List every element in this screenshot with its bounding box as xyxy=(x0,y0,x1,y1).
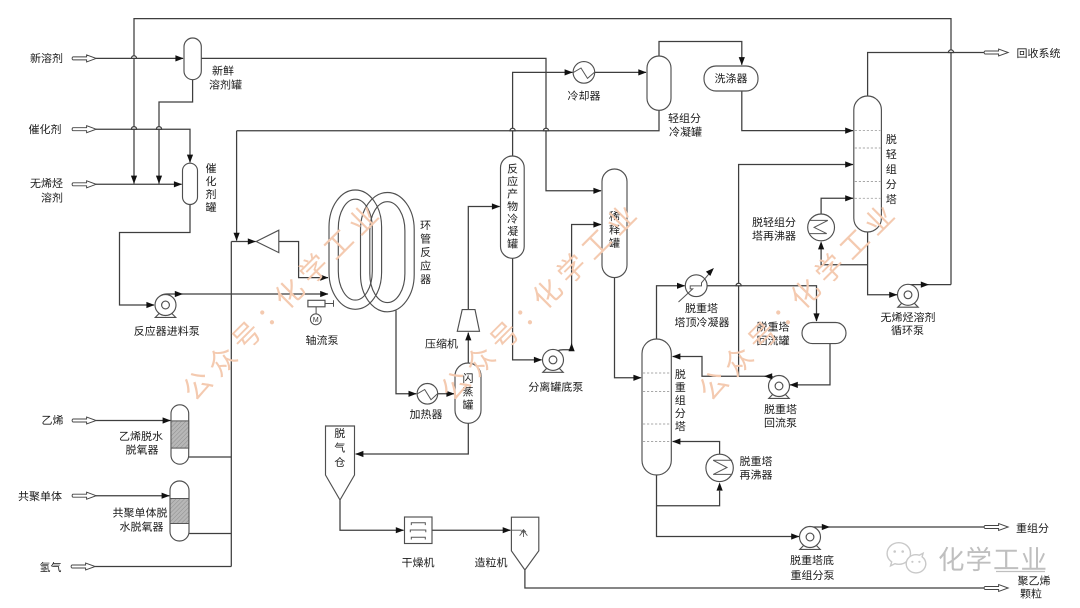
label 塔顶冷凝器 xyxy=(675,317,729,327)
label 乙烯 xyxy=(42,415,63,425)
logo text 化学工业 xyxy=(939,547,1045,572)
label 闪蒸罐 xyxy=(463,373,473,410)
wire cooler to light condensate tank xyxy=(595,71,646,73)
label 颗粒 xyxy=(1020,588,1041,598)
arrow onto valve line xyxy=(234,233,240,241)
vessel dilution tank 稀释罐 xyxy=(602,169,627,278)
wire reflux drum to reflux pump xyxy=(790,344,830,385)
vessel reflux drum 脱重塔回流罐 xyxy=(802,323,846,344)
open arrow pellets outlet xyxy=(984,585,1008,592)
wire catalyst tank outlet to feed pump xyxy=(120,205,191,306)
arrow reflux pump outlet xyxy=(764,373,772,379)
arrow into fresh solvent tank xyxy=(175,55,183,61)
wire dryer to pelletizer xyxy=(432,529,511,531)
label 共聚单体 xyxy=(19,491,62,501)
arrow into reflux pump xyxy=(790,382,798,388)
label 洗涤器 xyxy=(715,73,747,83)
open arrow solvent inlet xyxy=(72,181,96,188)
arrow into reboiler A bottom xyxy=(717,482,723,490)
arrow into light condensate tank xyxy=(638,69,646,75)
open arrow heavies outlet xyxy=(984,524,1008,531)
vessel ethylene deoxygenator 乙烯脱水脱氧器 xyxy=(171,405,189,464)
label 乙烯脱水 xyxy=(120,431,163,441)
axial pump stub xyxy=(316,300,333,314)
hop crossing xyxy=(131,127,136,130)
reactor loop 2 inner xyxy=(370,202,405,303)
label 脱重塔 xyxy=(757,321,789,331)
open arrow catalyst inlet xyxy=(72,126,96,133)
arrow into ethylene deoxygenator xyxy=(163,417,171,423)
label 脱重塔 xyxy=(740,456,772,466)
watermark 公众号：化学工业 xyxy=(695,201,897,403)
machine pelletizer 造粒机 xyxy=(511,517,538,570)
wire ethylene feed xyxy=(96,420,170,422)
svg-text:M: M xyxy=(313,317,319,324)
label 循环泵 xyxy=(891,325,923,335)
label 重组分 xyxy=(1017,523,1049,533)
label 无烯烃溶剂 xyxy=(881,312,935,322)
arrow into reboiler B bottom xyxy=(818,241,824,249)
arrow into tower light feed xyxy=(845,128,853,134)
open arrow hydrogen inlet xyxy=(71,563,95,570)
wire solvent tank outlet xyxy=(159,80,193,184)
open arrow recovery outlet xyxy=(984,49,1008,56)
label 重组分泵 xyxy=(791,570,834,580)
arrow into catalyst tank side xyxy=(174,181,182,187)
watermark 公众号：化学工业 xyxy=(437,201,639,403)
wire valve to reactor xyxy=(279,242,328,278)
arrow reboiler A return into tower xyxy=(672,438,680,444)
hop crossing xyxy=(543,128,548,131)
arrow separator pump riser xyxy=(569,343,575,351)
wire olefin-free solvent feed xyxy=(96,183,182,185)
hop crossing xyxy=(510,128,515,131)
wire reflux pump to tower xyxy=(673,357,775,378)
axial pump motor circle xyxy=(310,314,321,325)
pelletizer spray nozzle xyxy=(511,530,527,537)
label 溶剂罐 xyxy=(209,79,241,89)
label 加热器 xyxy=(410,409,442,419)
arrow into feed pump xyxy=(146,302,154,308)
reactor loop 2 outer xyxy=(361,193,415,312)
wire top recycle loop xyxy=(134,19,951,285)
wire light condensate vapor to scrubber xyxy=(659,42,742,65)
label 轴流泵 xyxy=(306,335,338,345)
arrow into separator pump xyxy=(534,357,542,363)
wire reboiler B liquid feed xyxy=(821,249,868,265)
open arrow comonomer inlet xyxy=(72,492,96,499)
wire separator pump to dilution tank xyxy=(558,225,602,351)
open arrow ethylene inlet xyxy=(72,417,96,424)
arrow recycle down 1 xyxy=(131,176,137,184)
wire reboiler A liquid feed xyxy=(657,491,720,506)
label 冷却器 xyxy=(568,90,600,100)
wire heater to flash tank xyxy=(438,393,454,395)
tower de-heavies 脱重组分塔 xyxy=(642,339,671,475)
arrow into product condensate tank xyxy=(492,203,500,209)
wire condensate tank bottom to pump xyxy=(513,258,542,360)
label 催化剂 xyxy=(29,124,61,134)
label 脱轻组分塔 xyxy=(886,134,896,204)
arrow feed pump outlet xyxy=(175,291,183,297)
wire comonomer feed xyxy=(96,495,169,497)
wire collector to mixing valve xyxy=(231,241,255,243)
label 回流罐 xyxy=(757,335,789,345)
label 压缩机 xyxy=(425,338,457,348)
wire condenser to reflux drum xyxy=(707,286,817,321)
label 反应器进料泵 xyxy=(134,326,199,336)
wire light condensate liquid recycle xyxy=(237,110,659,131)
arrow condenser utility xyxy=(706,266,716,276)
arrow into condenser xyxy=(677,283,685,289)
label 氢气 xyxy=(40,562,61,572)
exchanger heater 加热器 xyxy=(417,384,438,405)
vessel light condensate tank 轻组分冷凝罐 xyxy=(647,56,671,110)
pump heavies bottoms 脱重塔底重组分泵 xyxy=(800,527,821,550)
wire heavies tower bottoms xyxy=(657,475,800,537)
wire condensate tank vapor riser to cooler xyxy=(513,72,573,156)
label 新鲜 xyxy=(212,65,233,75)
logo underline xyxy=(996,571,1045,573)
label 稀释罐 xyxy=(609,211,619,248)
arrow into dryer xyxy=(396,527,404,533)
wire compressor to product condensate tank xyxy=(468,207,499,310)
label 无烯烃 xyxy=(30,178,62,188)
logo wechat icon xyxy=(887,543,926,573)
arrow into flash tank xyxy=(446,391,454,397)
wire comonomer deoxygenator outlet xyxy=(189,533,231,535)
label 造粒机 xyxy=(475,557,507,567)
arrow into reactor upper xyxy=(320,275,328,281)
wire heavies tower top to condenser xyxy=(657,286,685,339)
vessel comonomer deoxygenator 共聚单体脱水脱氧器 xyxy=(170,481,189,541)
wire monomer collector xyxy=(230,242,232,567)
pump reflux 脱重塔回流泵 xyxy=(769,376,790,399)
vessel catalyst tank 催化剂罐 xyxy=(183,163,198,204)
exchanger overhead condenser 脱重塔塔顶冷凝器 xyxy=(679,272,711,302)
vessel flash tank 闪蒸罐 xyxy=(455,363,481,423)
label 脱氧器 xyxy=(126,444,158,454)
axial pump body 轴流泵 xyxy=(308,300,325,307)
hop crossing xyxy=(156,127,161,130)
vessel fresh solvent tank 新鲜溶剂罐 xyxy=(184,38,201,80)
label 回收系统 xyxy=(1017,48,1060,58)
arrow heavies pump outlet xyxy=(822,524,830,530)
arrow into compressor xyxy=(465,332,471,340)
arrow into scrubber xyxy=(739,57,745,65)
wire ethylene deoxygenator outlet xyxy=(189,456,232,458)
label 塔再沸器 xyxy=(752,230,795,240)
arrow reboiler B return into tower xyxy=(845,195,853,201)
label 干燥机 xyxy=(402,557,434,567)
wire degassing bin to dryer xyxy=(340,500,404,530)
wire vapor riser to de-lighting tower feed xyxy=(739,165,853,377)
wire scrubber to de-lighting tower xyxy=(742,91,853,131)
wire catalyst feed xyxy=(96,129,190,162)
wire dilution tank to heavies tower xyxy=(615,278,641,378)
arrow into heater xyxy=(409,391,417,397)
arrow into valve xyxy=(248,238,256,244)
vessel degassing bin 脱气仓 xyxy=(326,426,355,500)
hop crossing xyxy=(131,56,136,59)
label 脱轻组分 xyxy=(752,217,795,227)
label 环管反应器 xyxy=(420,221,430,284)
label 脱重组分塔 xyxy=(675,369,685,431)
wire flash tank to compressor xyxy=(467,333,469,363)
arrow into pelletizer xyxy=(503,527,511,533)
open arrow fresh solvent inlet xyxy=(72,55,96,62)
label 新溶剂 xyxy=(30,53,62,63)
arrow into heavies tower feed xyxy=(633,375,641,381)
arrow into degassing bin xyxy=(355,451,363,457)
arrow reflux into tower xyxy=(672,353,680,359)
arrow into tower mid feed xyxy=(845,161,853,167)
label 脱重塔底 xyxy=(790,555,833,565)
valve mixing eductor xyxy=(256,230,279,252)
arrow into heavies pump xyxy=(791,533,799,539)
wire fresh solvent feed xyxy=(96,57,183,59)
pump solvent circulation 无烯烃溶剂循环泵 xyxy=(898,284,919,307)
label 分离罐底泵 xyxy=(529,382,583,392)
exchanger reboiler B 脱轻组分塔再沸器 xyxy=(808,214,835,241)
arrow recycle down 2 xyxy=(156,176,162,184)
wire reactor outlet to heater xyxy=(396,311,416,394)
wire flash bottoms to degassing bin xyxy=(356,423,469,454)
label 再沸器 xyxy=(740,469,772,479)
arrow into dilution tank mid xyxy=(593,221,601,227)
exchanger cooler 冷却器 xyxy=(573,62,595,84)
vessel reaction product condensate tank 反应产物冷凝罐 xyxy=(501,156,525,258)
machine dryer 干燥机 xyxy=(405,517,433,544)
wire feed pump to reactor xyxy=(161,294,328,296)
label 聚乙烯 xyxy=(1018,575,1050,585)
label 脱重塔 xyxy=(685,303,717,313)
pump separator bottoms 分离罐底泵 xyxy=(543,349,564,372)
hop crossing xyxy=(948,50,953,53)
label 脱气仓 xyxy=(335,428,345,467)
arrow into catalyst tank top xyxy=(187,155,193,163)
wire heavies pump outlet xyxy=(806,527,985,529)
wire circulation pump outlet xyxy=(904,285,952,286)
arrow into circulation pump xyxy=(889,292,897,298)
wire hydrogen feed xyxy=(95,566,231,568)
wire solvent to dilution tank xyxy=(201,58,601,190)
label 溶剂 xyxy=(41,192,62,202)
reactor loop 1 outer 环管反应器 xyxy=(329,190,382,309)
exchanger reboiler A 脱重塔再沸器 xyxy=(706,454,733,481)
arrow into comonomer deoxygenator xyxy=(162,493,170,499)
tower de-lighting 脱轻组分塔 xyxy=(854,96,882,232)
arrow into cooler xyxy=(565,69,573,75)
arrow into reflux drum xyxy=(813,313,819,321)
reactor loop 1 inner xyxy=(338,199,372,300)
arrow into dilution tank top xyxy=(593,188,601,194)
label 催化剂罐 xyxy=(206,163,216,212)
label 冷凝罐 xyxy=(669,127,701,137)
label 脱重塔 xyxy=(764,404,796,414)
label 回流泵 xyxy=(765,417,797,427)
wire tower top to recovery xyxy=(868,53,984,97)
wire reboiler A vapor return xyxy=(673,442,720,455)
machine compressor 压缩机 xyxy=(457,310,479,332)
arrow into reactor lower xyxy=(320,291,328,297)
label 共聚单体脱 xyxy=(113,507,167,517)
arrow circulation pump outlet xyxy=(921,282,929,288)
wire tower bottoms to circulation pump xyxy=(868,232,897,295)
pump reactor feed 反应器进料泵 xyxy=(155,295,176,318)
watermark 公众号：化学工业 xyxy=(179,201,381,403)
label 反应产物冷凝罐 xyxy=(507,164,517,249)
wire pellets line xyxy=(525,570,984,588)
label 轻组分 xyxy=(668,113,700,123)
wire reboiler B vapor return xyxy=(821,198,853,214)
label 水脱氧器 xyxy=(120,521,163,531)
hop crossing xyxy=(736,283,741,286)
wire recycle drop to valve line xyxy=(236,131,238,241)
vessel scrubber 洗涤器 xyxy=(704,66,758,91)
